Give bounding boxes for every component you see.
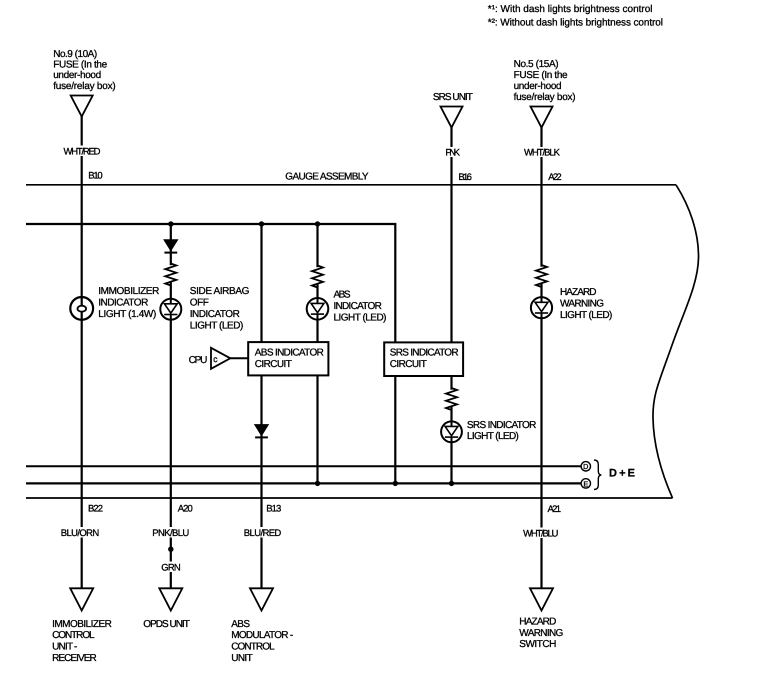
svg-text:GAUGE ASSEMBLY: GAUGE ASSEMBLY <box>285 172 369 183</box>
svg-text:INDICATOR: INDICATOR <box>334 301 382 312</box>
svg-text:WARNING: WARNING <box>519 628 563 639</box>
svg-text:B13: B13 <box>266 504 281 515</box>
svg-text:CONTROL: CONTROL <box>231 642 275 653</box>
svg-text:UNIT -: UNIT - <box>52 642 77 653</box>
svg-text:OPDS UNIT: OPDS UNIT <box>143 619 190 630</box>
svg-text:A20: A20 <box>178 504 193 515</box>
svg-text:ABS: ABS <box>231 619 250 630</box>
svg-text:RECEIVER: RECEIVER <box>52 653 97 664</box>
svg-text:IMMOBILIZER: IMMOBILIZER <box>98 286 159 297</box>
svg-text:*¹: With dash lights brightnes: *¹: With dash lights brightness control <box>488 4 653 15</box>
svg-text:E: E <box>583 479 588 488</box>
svg-text:A21: A21 <box>548 504 562 515</box>
svg-text:PNK: PNK <box>445 148 460 159</box>
svg-text:IMMOBILIZER: IMMOBILIZER <box>52 619 112 630</box>
svg-text:INDICATOR: INDICATOR <box>190 309 240 320</box>
svg-text:D: D <box>583 462 588 471</box>
svg-text:No.5 (15A): No.5 (15A) <box>514 59 559 70</box>
svg-text:No.9 (10A): No.9 (10A) <box>53 49 97 60</box>
svg-text:FUSE (In the: FUSE (In the <box>53 60 107 71</box>
svg-text:B22: B22 <box>88 504 103 515</box>
svg-text:SIDE AIRBAG: SIDE AIRBAG <box>190 286 250 297</box>
svg-text:HAZARD: HAZARD <box>519 617 556 628</box>
svg-text:CPU: CPU <box>189 355 208 366</box>
svg-text:CIRCUIT: CIRCUIT <box>255 359 292 370</box>
svg-text:WHT/BLU: WHT/BLU <box>523 529 558 540</box>
svg-text:SRS UNIT: SRS UNIT <box>433 92 473 103</box>
svg-text:INDICATOR: INDICATOR <box>98 298 148 309</box>
svg-text:CIRCUIT: CIRCUIT <box>390 359 427 370</box>
svg-text:HAZARD: HAZARD <box>560 287 597 298</box>
svg-text:c: c <box>213 354 218 364</box>
svg-text:A22: A22 <box>548 172 562 183</box>
svg-text:under-hood: under-hood <box>53 70 101 81</box>
svg-text:fuse/relay box): fuse/relay box) <box>53 81 115 92</box>
svg-text:LIGHT (LED): LIGHT (LED) <box>560 310 612 321</box>
svg-text:MODULATOR -: MODULATOR - <box>231 630 293 641</box>
svg-text:B10: B10 <box>88 171 103 182</box>
svg-text:SRS INDICATOR: SRS INDICATOR <box>390 347 459 358</box>
svg-text:LIGHT (LED): LIGHT (LED) <box>334 312 387 323</box>
svg-text:UNIT: UNIT <box>231 653 253 664</box>
svg-text:BLU/RED: BLU/RED <box>244 528 282 539</box>
svg-text:B16: B16 <box>458 172 472 183</box>
svg-text:LIGHT (LED): LIGHT (LED) <box>467 431 519 442</box>
svg-text:under-hood: under-hood <box>514 81 562 92</box>
svg-text:fuse/relay box): fuse/relay box) <box>514 92 576 103</box>
svg-text:WHT/RED: WHT/RED <box>64 146 101 157</box>
svg-text:WARNING: WARNING <box>560 299 604 310</box>
svg-text:SRS INDICATOR: SRS INDICATOR <box>467 420 537 431</box>
svg-text:ABS INDICATOR: ABS INDICATOR <box>255 347 324 358</box>
svg-text:LIGHT (1.4W): LIGHT (1.4W) <box>98 309 156 320</box>
svg-text:PNK/BLU: PNK/BLU <box>152 528 189 539</box>
svg-text:BLU/ORN: BLU/ORN <box>61 528 100 539</box>
svg-text:GRN: GRN <box>161 562 181 573</box>
svg-text:WHT/BLK: WHT/BLK <box>524 148 561 159</box>
svg-text:OFF: OFF <box>190 297 209 308</box>
svg-text:SWITCH: SWITCH <box>519 639 556 650</box>
svg-text:*²: Without dash lights bright: *²: Without dash lights brightness contr… <box>488 17 663 28</box>
svg-text:FUSE (In the: FUSE (In the <box>514 70 568 81</box>
svg-text:LIGHT (LED): LIGHT (LED) <box>190 320 244 331</box>
svg-text:ABS: ABS <box>334 290 351 301</box>
svg-text:D + E: D + E <box>609 468 635 480</box>
svg-text:CONTROL: CONTROL <box>52 630 95 641</box>
